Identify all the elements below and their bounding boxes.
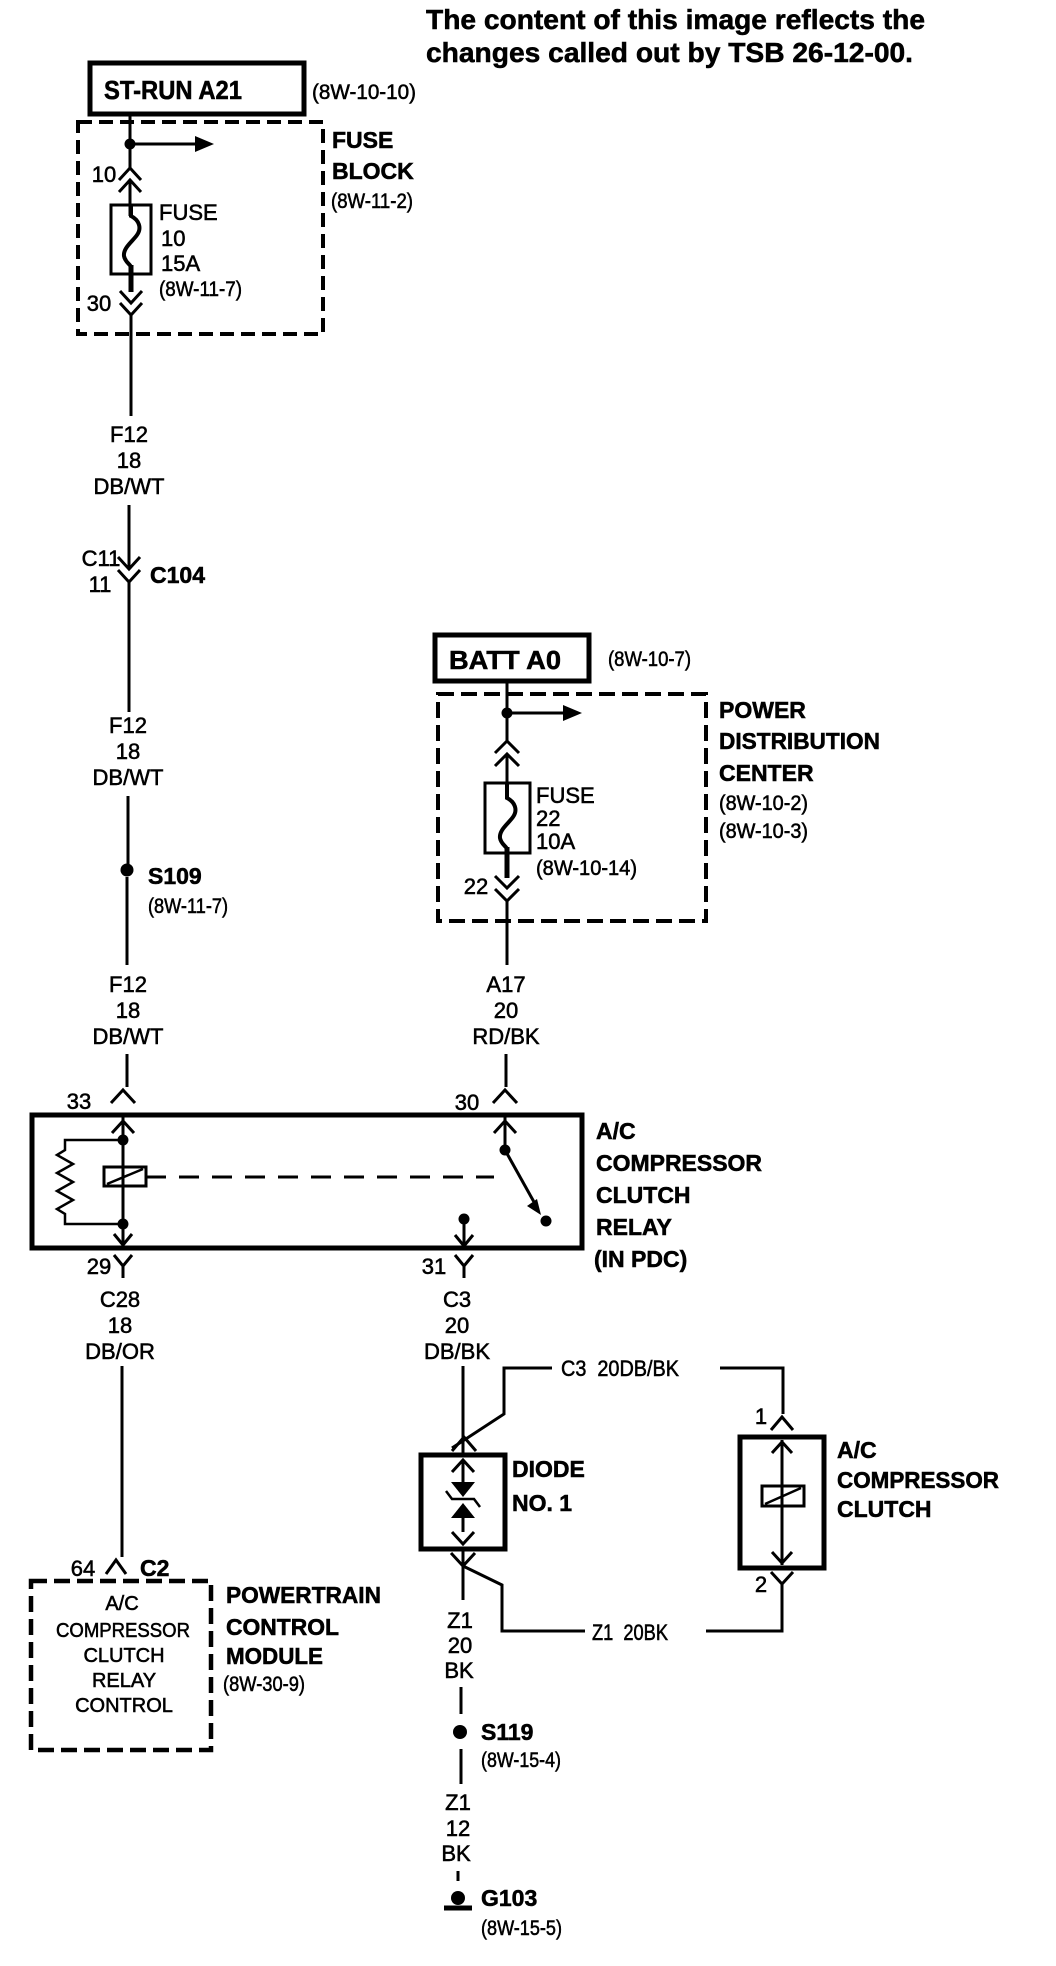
clutch arrow down [772, 1552, 792, 1563]
thick wire stub below fuse 22 [505, 847, 510, 878]
fuse 10 15A body [111, 205, 151, 274]
svg-text:CLUTCH: CLUTCH [837, 1496, 932, 1522]
svg-text:30: 30 [455, 1090, 479, 1115]
svg-text:C3 20DB/BK: C3 20DB/BK [561, 1356, 679, 1381]
wire Z1 branch right segment [706, 1595, 782, 1631]
svg-text:10A: 10A [536, 829, 575, 854]
svg-text:33: 33 [67, 1089, 91, 1114]
svg-text:(8W-11-7): (8W-11-7) [159, 278, 242, 301]
wire C3 branch right segment [720, 1368, 783, 1414]
ground G103 [444, 1891, 472, 1908]
pin 64 chevron [106, 1560, 126, 1574]
svg-text:18: 18 [117, 448, 141, 473]
svg-text:18: 18 [116, 998, 140, 1023]
note: TSB notice text [426, 4, 925, 68]
svg-text:FUSE: FUSE [159, 200, 218, 225]
label POWER DISTRIBUTION CENTER [719, 697, 880, 843]
clutch pin 1 chevron [771, 1417, 793, 1430]
relay pin 31 wire with down arrow [455, 1219, 473, 1246]
svg-text:COMPRESSOR: COMPRESSOR [596, 1150, 762, 1176]
svg-text:DB/WT: DB/WT [93, 1024, 164, 1049]
pin 10 chevron (double up) [119, 168, 141, 192]
junction dot [125, 139, 136, 150]
relay common wire pin 30 side [504, 1115, 507, 1150]
svg-text:20: 20 [448, 1633, 472, 1658]
svg-text:CONTROL: CONTROL [75, 1695, 173, 1717]
connector box BATT A0 [435, 635, 589, 681]
branch corner to C3 20DB/BK line [452, 1368, 552, 1448]
label F12 18 DB/WT [93, 972, 164, 1049]
wire tick to ground [457, 1871, 460, 1881]
svg-text:DB/WT: DB/WT [93, 765, 164, 790]
relay coil junction dot top [118, 1135, 129, 1146]
svg-text:CLUTCH: CLUTCH [596, 1182, 691, 1208]
clutch coil wire [781, 1440, 784, 1565]
svg-text:18: 18 [108, 1313, 132, 1338]
pin 30 chevron (double down) [120, 291, 142, 315]
svg-text:BATT A0: BATT A0 [449, 645, 561, 675]
svg-text:DISTRIBUTION: DISTRIBUTION [719, 728, 880, 754]
diode arrow up [452, 1460, 474, 1482]
relay switch pivot dot [500, 1145, 511, 1156]
wire from ST-RUN A21 into fuse block [129, 114, 132, 168]
svg-text:BLOCK: BLOCK [332, 158, 414, 184]
svg-text:RELAY: RELAY [596, 1214, 672, 1240]
relay coil [104, 1167, 146, 1186]
svg-text:22: 22 [464, 874, 488, 899]
wire [127, 796, 130, 864]
relay coil junction dot bottom [118, 1219, 129, 1230]
label C3 20 DB/BK [424, 1287, 490, 1364]
label C11 / 11 [82, 546, 121, 597]
wire C3 from relay down [462, 1366, 465, 1456]
connector chevron above diode [452, 1437, 476, 1451]
thick wire stub below fuse [129, 265, 134, 292]
relay contact dot [541, 1216, 552, 1227]
svg-text:20: 20 [494, 998, 518, 1023]
svg-text:2: 2 [755, 1572, 767, 1597]
arrow feed to other circuits [130, 136, 214, 152]
splice S109 [121, 864, 134, 877]
svg-text:MODULE: MODULE [226, 1643, 323, 1669]
wire C28 to PCM [121, 1366, 124, 1557]
svg-text:(8W-10-14): (8W-10-14) [536, 857, 637, 880]
A/C compressor clutch box [740, 1437, 824, 1568]
svg-text:DB/BK: DB/BK [424, 1339, 490, 1364]
svg-text:A/C: A/C [596, 1118, 636, 1144]
svg-text:BK: BK [441, 1841, 471, 1866]
svg-text:A/C: A/C [837, 1437, 877, 1463]
connector box ST-RUN A21 [90, 63, 304, 114]
wire to fuse [129, 180, 132, 216]
svg-text:(8W-11-7): (8W-11-7) [148, 895, 228, 918]
wire to S119 [460, 1687, 463, 1714]
svg-text:COMPRESSOR: COMPRESSOR [837, 1467, 999, 1493]
wire to fuse 22 [506, 754, 509, 798]
svg-text:64: 64 [71, 1556, 95, 1581]
svg-text:1: 1 [755, 1404, 767, 1429]
svg-text:18: 18 [116, 739, 140, 764]
diode symbol [446, 1482, 480, 1518]
relay pin 31 dot [459, 1214, 470, 1225]
label A17 20 RD/BK [472, 972, 540, 1049]
svg-text:RELAY: RELAY [92, 1670, 156, 1692]
svg-text:A17: A17 [486, 972, 525, 997]
svg-text:12: 12 [446, 1816, 470, 1841]
label Z1 12 BK [441, 1790, 471, 1866]
svg-text:CENTER: CENTER [719, 760, 814, 786]
svg-text:(8W-11-2): (8W-11-2) [331, 190, 413, 213]
label S119 (8W-15-4) [481, 1719, 561, 1772]
svg-text:FUSE: FUSE [536, 783, 595, 808]
clutch pin 2 chevron [771, 1572, 793, 1596]
svg-text:31: 31 [422, 1254, 446, 1279]
svg-text:CONTROL: CONTROL [226, 1614, 339, 1640]
svg-text:(IN PDC): (IN PDC) [594, 1246, 687, 1272]
chevron (double up) above fuse 22 [495, 741, 519, 766]
svg-text:(8W-10-10): (8W-10-10) [312, 81, 416, 104]
svg-text:CLUTCH: CLUTCH [83, 1645, 164, 1667]
svg-text:POWERTRAIN: POWERTRAIN [226, 1582, 381, 1608]
svg-text:(8W-10-7): (8W-10-7) [608, 648, 691, 671]
A/C compressor clutch relay box [32, 1115, 582, 1248]
svg-text:BK: BK [444, 1658, 474, 1683]
wire A17 [506, 901, 509, 965]
label F12 18 DB/WT [94, 422, 165, 499]
label A/C COMPRESSOR CLUTCH RELAY (IN PDC) [594, 1118, 762, 1272]
relay arrow up (switch side) [494, 1121, 516, 1133]
svg-text:ST-RUN A21: ST-RUN A21 [104, 75, 242, 105]
svg-text:C104: C104 [150, 562, 205, 588]
svg-text:(8W-15-4): (8W-15-4) [481, 1749, 561, 1772]
svg-text:(8W-10-2): (8W-10-2) [719, 792, 808, 815]
fuse labels FUSE 22 10A (8W-10-14) [536, 783, 637, 880]
wire [505, 1054, 508, 1087]
diode arrow down [452, 1518, 474, 1544]
label POWERTRAIN CONTROL MODULE (8W-30-9) [223, 1582, 381, 1696]
wire below diode [462, 1549, 465, 1600]
svg-text:29: 29 [87, 1254, 111, 1279]
svg-text:C11: C11 [82, 546, 121, 571]
wire [126, 1054, 129, 1087]
arrow feed to other circuits [507, 705, 582, 721]
pin 31 chevron [455, 1255, 473, 1278]
label S109 (8W-11-7) [148, 863, 228, 918]
svg-text:(8W-30-9): (8W-30-9) [223, 1673, 305, 1696]
pin 29 chevron [114, 1255, 132, 1278]
svg-text:Z1: Z1 [447, 1608, 473, 1633]
svg-text:S109: S109 [148, 863, 202, 889]
svg-text:Z1 20BK: Z1 20BK [592, 1620, 668, 1645]
svg-text:G103: G103 [481, 1885, 537, 1911]
power distribution center enclosure (dashed) [438, 694, 706, 921]
fuse block enclosure (dashed) [78, 122, 323, 334]
connector chevron below diode [451, 1553, 475, 1566]
svg-text:F12: F12 [109, 972, 147, 997]
svg-text:10: 10 [161, 226, 185, 251]
wire [126, 877, 129, 965]
svg-text:10: 10 [92, 162, 116, 187]
fuse 22 10A body [485, 783, 530, 853]
wire from BATT A0 [506, 681, 509, 741]
relay coil wire pin 33 side [122, 1115, 125, 1245]
svg-text:POWER: POWER [719, 697, 806, 723]
relay actuation dashed line [146, 1176, 494, 1179]
label FUSE BLOCK (8W-11-2) [331, 127, 414, 213]
svg-text:FUSE: FUSE [332, 127, 393, 153]
connector C104 chevron (double down) [118, 557, 140, 582]
svg-text:(8W-15-5): (8W-15-5) [481, 1917, 562, 1940]
label G103 (8W-15-5) [481, 1885, 562, 1940]
pin 33 chevron [111, 1090, 135, 1103]
svg-text:changes called out by TSB 26-1: changes called out by TSB 26-12-00. [426, 37, 913, 68]
branch corner to Z1 20BK line [463, 1566, 585, 1631]
svg-text:NO. 1: NO. 1 [512, 1490, 572, 1516]
clutch arrow up [772, 1442, 792, 1453]
svg-text:C28: C28 [100, 1287, 140, 1312]
junction dot [502, 708, 513, 719]
label A/C COMPRESSOR CLUTCH RELAY CONTROL [56, 1593, 190, 1717]
clutch coil [762, 1486, 804, 1506]
svg-text:S119: S119 [481, 1719, 533, 1745]
relay arrow up (coil side) [112, 1121, 134, 1133]
pin 22 chevron (double down) [495, 876, 519, 901]
label A/C COMPRESSOR CLUTCH [837, 1437, 999, 1522]
powertrain control module enclosure (dashed) [31, 1581, 211, 1750]
svg-text:DB/WT: DB/WT [94, 474, 165, 499]
svg-text:20: 20 [445, 1313, 469, 1338]
svg-text:C3: C3 [443, 1287, 471, 1312]
relay resistor [57, 1140, 123, 1224]
label C28 18 DB/OR [85, 1287, 155, 1364]
svg-text:11: 11 [89, 572, 112, 597]
svg-text:C2: C2 [140, 1555, 169, 1581]
diode box [421, 1455, 505, 1549]
fuse labels FUSE 10 15A (8W-11-7) [159, 200, 242, 301]
wire [128, 505, 131, 569]
label F12 18 DB/WT [93, 713, 164, 790]
wire [128, 582, 131, 712]
svg-text:Z1: Z1 [445, 1790, 471, 1815]
label DIODE NO. 1 [512, 1456, 585, 1516]
pin 30 chevron [493, 1090, 517, 1103]
svg-text:The content of this image refl: The content of this image reflects the [426, 4, 925, 35]
svg-text:15A: 15A [161, 251, 200, 276]
svg-text:(8W-10-3): (8W-10-3) [719, 820, 808, 843]
svg-text:COMPRESSOR: COMPRESSOR [56, 1620, 190, 1642]
svg-text:DIODE: DIODE [512, 1456, 585, 1482]
relay arrow down (coil side) [114, 1234, 132, 1245]
svg-text:F12: F12 [109, 713, 147, 738]
svg-text:A/C: A/C [105, 1593, 138, 1615]
label Z1 20 BK [444, 1608, 474, 1683]
splice S119 [453, 1725, 467, 1739]
wire below S119 [460, 1749, 463, 1784]
svg-text:F12: F12 [110, 422, 148, 447]
svg-text:30: 30 [87, 291, 111, 316]
relay switch arm with arrowhead [505, 1150, 541, 1215]
svg-text:DB/OR: DB/OR [85, 1339, 155, 1364]
wire out of fuse block [130, 315, 133, 416]
svg-text:RD/BK: RD/BK [472, 1024, 540, 1049]
svg-text:22: 22 [536, 806, 560, 831]
